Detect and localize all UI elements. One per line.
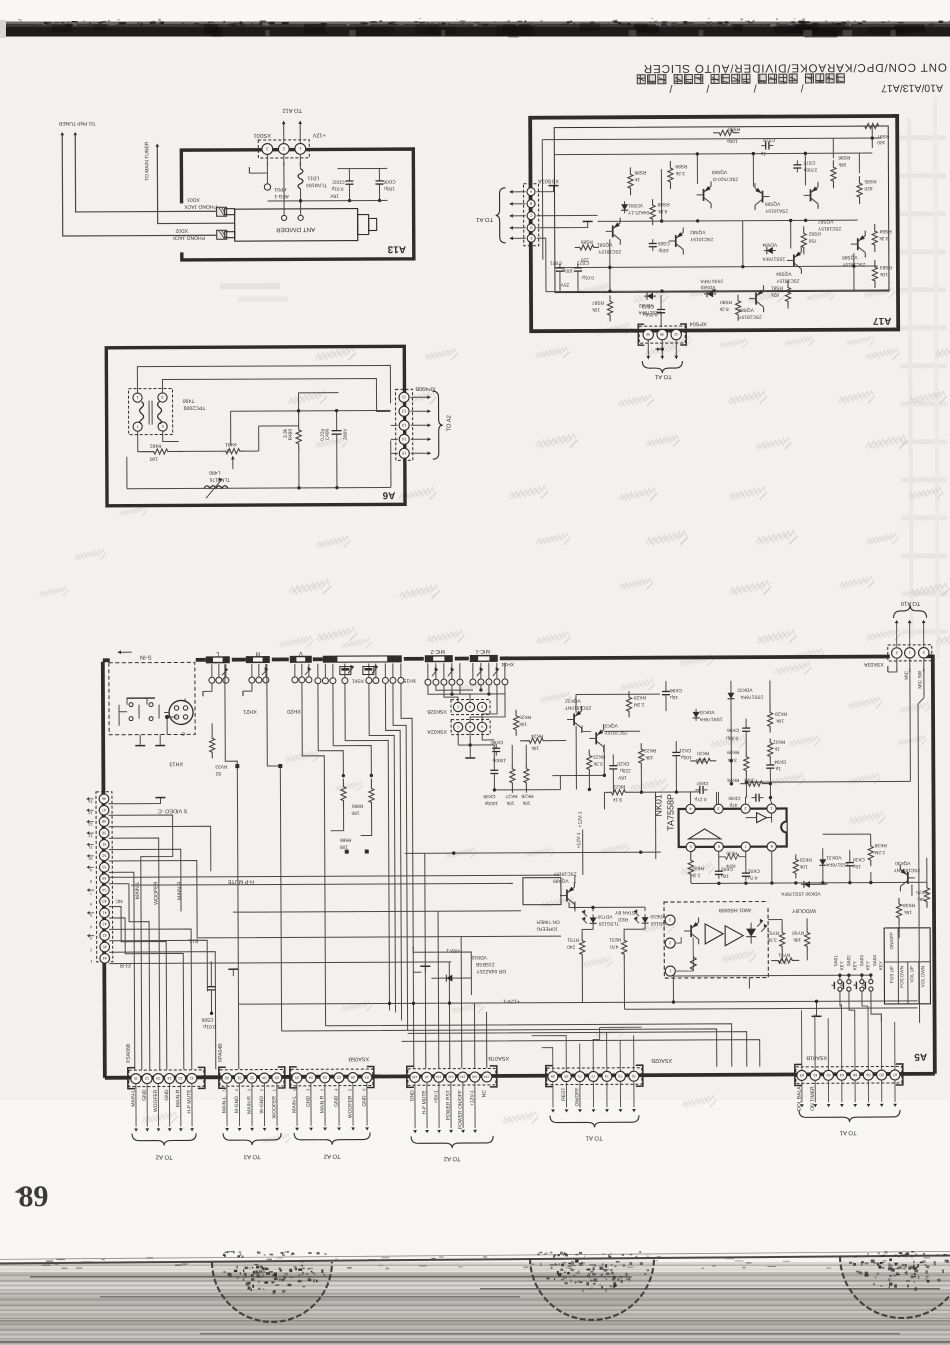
svg-text:A5: A5 bbox=[914, 1051, 927, 1062]
svg-text:2SC1815Y: 2SC1815Y bbox=[552, 871, 576, 877]
svg-text:1SS176FA: 1SS176FA bbox=[700, 278, 724, 284]
wires VQA99 bbox=[541, 890, 562, 892]
svg-text:TO A3: TO A3 bbox=[243, 1153, 261, 1160]
left connector pin 46 bbox=[99, 794, 109, 804]
svg-text:A13: A13 bbox=[387, 243, 406, 254]
XSK02B pins C A B bbox=[453, 702, 462, 711]
stray dark specks on top band edge bbox=[18, 19, 21, 20]
resistor RE51 470 bbox=[622, 933, 627, 961]
svg-text:TO A1: TO A1 bbox=[585, 1134, 603, 1141]
svg-text:VQS85: VQS85 bbox=[764, 201, 780, 207]
svg-text:RS80: RS80 bbox=[720, 299, 732, 305]
LED wiring bbox=[592, 926, 594, 929]
svg-text:POS UP: POS UP bbox=[889, 966, 894, 983]
svg-text:16V: 16V bbox=[617, 774, 626, 780]
svg-text:R: R bbox=[255, 650, 260, 657]
svg-text:R492: R492 bbox=[150, 443, 162, 449]
svg-text:L490: L490 bbox=[209, 469, 220, 475]
svg-text:XH21: XH21 bbox=[243, 708, 257, 714]
svg-text:8: 8 bbox=[90, 879, 92, 883]
XSA01B pin 66 bbox=[850, 1070, 860, 1080]
svg-text:100µ: 100µ bbox=[562, 268, 573, 274]
capacitor CS73 0.056u bbox=[660, 305, 662, 309]
arrows above XSK03A to A10 bbox=[896, 623, 898, 647]
svg-text:13: 13 bbox=[401, 423, 406, 428]
svg-text:VQS84: VQS84 bbox=[738, 307, 754, 313]
svg-text:C: C bbox=[456, 705, 459, 709]
resistor RS89 3.3k bbox=[668, 161, 673, 189]
svg-text:41: 41 bbox=[102, 910, 106, 914]
optocoupler pins 3 2 1 bbox=[665, 915, 675, 925]
bottom band stripes bbox=[0, 1262, 950, 1265]
svg-text:25V: 25V bbox=[560, 282, 569, 288]
svg-text:43: 43 bbox=[102, 922, 106, 926]
svg-text:RE51: RE51 bbox=[609, 936, 621, 942]
resistor RS81 82k bbox=[785, 280, 790, 308]
svg-text:C566: C566 bbox=[201, 1016, 213, 1022]
svg-text:4.7µ: 4.7µ bbox=[748, 875, 758, 881]
optocoupler internal amp triangles bbox=[705, 924, 723, 944]
svg-text:POS DWN: POS DWN bbox=[899, 966, 904, 988]
svg-text:RS81: RS81 bbox=[771, 284, 783, 290]
connector XP490B pins 11-15 bbox=[399, 392, 409, 402]
svg-text:TLN3176: TLN3176 bbox=[209, 476, 230, 482]
svg-text:KEY: KEY bbox=[839, 961, 844, 970]
inductor LD11 TLN3183 bbox=[298, 169, 303, 189]
connector XPS04 pin 46 bbox=[643, 329, 653, 339]
svg-text:CK87: CK87 bbox=[696, 780, 708, 786]
svg-text:7: 7 bbox=[90, 891, 92, 895]
transistor VQK32 2SC1815NY bbox=[573, 714, 575, 726]
IC NK01 bottom pins 5 6 7 8 bbox=[686, 842, 695, 851]
svg-text:TO A2: TO A2 bbox=[446, 415, 453, 431]
transistor VQS84b 2SC1815Y (lower) bbox=[755, 293, 757, 305]
S-IN switch contacts bbox=[129, 703, 133, 707]
optocoupler photodiode bbox=[746, 929, 756, 937]
resistor RK01 1k bbox=[768, 739, 773, 761]
svg-text:CK92: CK92 bbox=[720, 866, 732, 872]
svg-text:CS72: CS72 bbox=[577, 259, 589, 265]
resistor RY52 3.3k bbox=[780, 926, 785, 952]
svg-text:0.01µ: 0.01µ bbox=[203, 1023, 216, 1029]
svg-text:2SA1015Y: 2SA1015Y bbox=[764, 207, 788, 213]
svg-text:12: 12 bbox=[145, 1076, 149, 1080]
svg-text:32: 32 bbox=[250, 1076, 254, 1080]
svg-text:TO A1: TO A1 bbox=[654, 373, 672, 380]
left connector pin 47 bbox=[99, 805, 109, 815]
resistor RT51 240 bbox=[580, 933, 585, 961]
brace TO A10 above XSK03A bbox=[894, 605, 927, 618]
resistor RS83 10k bbox=[872, 260, 877, 288]
svg-text:XPS04: XPS04 bbox=[690, 320, 707, 326]
rounded bus bends above XSA02B bbox=[326, 1024, 732, 1069]
svg-text:20: 20 bbox=[351, 1075, 355, 1079]
arrows right of XP490B bbox=[411, 396, 431, 398]
resistor RS86 1k bbox=[628, 167, 633, 195]
svg-text:VQS87: VQS87 bbox=[818, 218, 834, 224]
svg-text:A6: A6 bbox=[382, 489, 395, 500]
A13 ghost marks below block bbox=[220, 283, 280, 289]
svg-text:RS84: RS84 bbox=[879, 228, 891, 234]
transistor VQS84 2SC1815Y bbox=[793, 254, 795, 266]
resistor RK33 10k bbox=[793, 854, 798, 878]
svg-text:CD02: CD02 bbox=[332, 179, 345, 185]
bottom band long streaks bbox=[30, 1276, 630, 1278]
capacitor C566 0.01u bbox=[210, 961, 212, 982]
svg-text:67: 67 bbox=[893, 1072, 897, 1076]
capacitor CK94 1u bbox=[769, 761, 771, 765]
diode VD582 1SS176FA bbox=[644, 295, 656, 297]
svg-text:46: 46 bbox=[102, 796, 106, 800]
jack L pins and switch bbox=[209, 677, 215, 683]
block A5 top border segments bbox=[103, 658, 110, 662]
capacitor CD02 0.01u bbox=[348, 177, 350, 181]
diode VD810 Z15BSB bbox=[413, 971, 421, 973]
svg-text:CS77: CS77 bbox=[803, 159, 815, 165]
svg-text:XD03: XD03 bbox=[187, 196, 200, 202]
IC NK01 top pins 4 3 2 1 bbox=[686, 804, 695, 813]
svg-text:100µ: 100µ bbox=[384, 185, 395, 191]
svg-text:CK96: CK96 bbox=[727, 727, 739, 733]
svg-text:VQK32: VQK32 bbox=[565, 697, 581, 703]
svg-text:TLN3183: TLN3183 bbox=[306, 182, 327, 188]
svg-text:10k: 10k bbox=[776, 717, 784, 723]
svg-text:R665: R665 bbox=[351, 803, 363, 809]
jack V pins and switch bbox=[292, 677, 298, 683]
svg-text:1k: 1k bbox=[774, 746, 780, 752]
svg-text:2SC1815NY: 2SC1815NY bbox=[564, 704, 591, 710]
connector XPS04 dashed outline with brackets bbox=[639, 326, 685, 343]
svg-text:AFG-1: AFG-1 bbox=[274, 193, 289, 199]
svg-text:ON TIMER: ON TIMER bbox=[536, 919, 560, 925]
wires above XSA02B pins bbox=[542, 1048, 553, 1072]
scan: dark band at top of page bbox=[0, 24, 950, 37]
svg-text:RS95: RS95 bbox=[864, 178, 876, 184]
switch SA02 KEY bbox=[847, 980, 851, 984]
svg-text:1µ: 1µ bbox=[775, 766, 781, 772]
bottom band top thin dark rule bbox=[0, 1255, 950, 1265]
XSA05B pin 23 bbox=[320, 1073, 330, 1083]
resistor RK27 10k bbox=[510, 762, 515, 790]
XSA01B pin 62 bbox=[823, 1070, 833, 1080]
svg-text:RV33: RV33 bbox=[215, 763, 227, 769]
XSA01B pin 60 bbox=[877, 1070, 887, 1080]
svg-text:S VIDEO -C: S VIDEO -C bbox=[158, 807, 188, 813]
connector XSK02A dashed outline bbox=[451, 719, 490, 734]
svg-text:RK70: RK70 bbox=[916, 890, 928, 895]
svg-text:2.2M: 2.2M bbox=[874, 849, 885, 855]
key function table bbox=[884, 928, 930, 1004]
svg-text:89: 89 bbox=[18, 1180, 48, 1213]
mark left of page number bbox=[14, 1187, 21, 1193]
svg-text:XSK02A: XSK02A bbox=[427, 728, 447, 734]
left connector pin 42 bbox=[100, 931, 110, 941]
svg-text:2.2M: 2.2M bbox=[634, 701, 645, 707]
XSA06B arrows down bbox=[135, 1084, 137, 1126]
svg-text:220µ: 220µ bbox=[620, 767, 631, 773]
transistor VQK30 2SC1815NY bbox=[907, 872, 909, 884]
svg-text:ANT DIVIDER: ANT DIVIDER bbox=[276, 226, 316, 233]
svg-text:31: 31 bbox=[237, 1076, 241, 1080]
capacitor CK30 10u bbox=[849, 858, 851, 862]
svg-text:2SC1815Y: 2SC1815Y bbox=[841, 261, 865, 267]
svg-text:RK20: RK20 bbox=[697, 750, 709, 756]
svg-text:52: 52 bbox=[102, 853, 106, 857]
transformer T490 pin 5 bbox=[158, 422, 167, 431]
brace TO A3 under XPA04B bbox=[223, 1133, 281, 1145]
svg-text:CK94: CK94 bbox=[774, 758, 786, 764]
arrows from XSS03A to A1 bbox=[510, 191, 526, 193]
connector XSS03A pins A-E bbox=[527, 188, 535, 196]
resistor RY51 3.3k (lower) bbox=[771, 958, 799, 963]
svg-text:+12V-1: +12V-1 bbox=[503, 998, 520, 1004]
block A13 border (ANT DIVIDER board) bbox=[181, 149, 414, 260]
ground stub right of keys bbox=[815, 1001, 817, 1016]
svg-text:8.2k: 8.2k bbox=[719, 306, 729, 312]
svg-text:(GREEN): (GREEN) bbox=[537, 926, 558, 932]
svg-text:LD11: LD11 bbox=[307, 175, 319, 181]
wires right-mid column bbox=[730, 714, 732, 784]
svg-text:SA03: SA03 bbox=[859, 955, 864, 967]
svg-text:04AZ5.1Y: 04AZ5.1Y bbox=[627, 209, 649, 215]
wire H-P MUTE bus bbox=[131, 883, 513, 885]
resistor RS85 220 bbox=[575, 245, 599, 250]
svg-text:RK21: RK21 bbox=[613, 783, 625, 789]
svg-text:TO A2: TO A2 bbox=[443, 1155, 461, 1162]
svg-text:VOL UP: VOL UP bbox=[909, 966, 914, 983]
connector XSD01 pin 1 bbox=[295, 143, 306, 154]
connector XPS04 pin 48 bbox=[657, 329, 667, 339]
brace TO A2 under XSA06B bbox=[132, 1133, 196, 1145]
XSA02B pin 73 bbox=[615, 1071, 625, 1081]
XSA07B pin 133 bbox=[434, 1072, 444, 1082]
svg-text:77: 77 bbox=[591, 1074, 595, 1078]
svg-text:56k: 56k bbox=[838, 161, 846, 167]
left connector pin 50 bbox=[99, 828, 109, 838]
resistor RS96 56k bbox=[831, 160, 836, 188]
wire XSS03A pin A into board bbox=[536, 186, 553, 192]
node bus under LD11 bbox=[268, 199, 388, 202]
svg-text:XSA07B: XSA07B bbox=[488, 1055, 509, 1061]
connector XSK03A on top edge bbox=[888, 645, 932, 661]
svg-text:3.3k: 3.3k bbox=[593, 760, 603, 766]
svg-text:XD02: XD02 bbox=[175, 227, 188, 233]
svg-text:RK33: RK33 bbox=[799, 856, 811, 862]
svg-text:RK98: RK98 bbox=[727, 777, 739, 783]
svg-text:RK01: RK01 bbox=[773, 738, 785, 744]
svg-text:51: 51 bbox=[102, 842, 106, 846]
resistor R492 100 bbox=[138, 449, 184, 454]
ANT DIVIDER output connector bbox=[358, 215, 369, 235]
svg-text:200V: 200V bbox=[343, 428, 349, 440]
svg-text:MIC-1: MIC-1 bbox=[475, 648, 490, 654]
svg-text:PHONO JACK: PHONO JACK bbox=[184, 203, 217, 209]
XSA06B pin 15 bbox=[131, 1074, 141, 1084]
svg-text:1µ: 1µ bbox=[760, 151, 766, 157]
XSA07B pin 135 bbox=[410, 1072, 420, 1082]
svg-text:470: 470 bbox=[610, 943, 618, 949]
svg-text:820: 820 bbox=[864, 185, 872, 191]
resistor RS88 6.8k bbox=[650, 199, 655, 225]
XPA04B pin 30 bbox=[222, 1073, 232, 1083]
svg-text:+12V-1: +12V-1 bbox=[576, 832, 582, 848]
svg-text:1SS176FA: 1SS176FA bbox=[826, 861, 850, 867]
svg-text:CK98: CK98 bbox=[491, 739, 503, 745]
svg-text:2SC1015Y: 2SC1015Y bbox=[689, 236, 713, 242]
svg-text:XH13: XH13 bbox=[169, 760, 183, 766]
svg-text:RS88: RS88 bbox=[657, 201, 669, 207]
arrows below XPS04 to A1 bbox=[647, 340, 649, 359]
resistor RK98 330k bbox=[740, 781, 770, 786]
capacitor CK90 47p bbox=[751, 797, 755, 799]
op-amp triangle near pins 5-6 bbox=[689, 829, 721, 839]
bottom connector XSA05B bbox=[291, 1069, 373, 1086]
svg-text:XS61: XS61 bbox=[352, 678, 364, 684]
svg-text:100: 100 bbox=[877, 139, 885, 145]
op-amp triangle near pin 1 bbox=[757, 813, 767, 823]
XSA06B pin 13 bbox=[176, 1073, 186, 1083]
svg-text:TO A10: TO A10 bbox=[901, 600, 921, 607]
svg-text:49: 49 bbox=[102, 876, 106, 880]
svg-text:1k: 1k bbox=[634, 176, 640, 182]
XPA04B pin 32 bbox=[247, 1073, 257, 1083]
diode VDK32 1SS176FA (right) bbox=[730, 690, 732, 702]
wire XSS03A pin E bus down bbox=[537, 238, 546, 292]
left connector pin 49 bbox=[100, 874, 110, 884]
XSA02B pin 25 bbox=[561, 1072, 571, 1082]
transistor VQS83 2SC7520-O bbox=[703, 189, 705, 201]
svg-text:VDK33: VDK33 bbox=[699, 709, 715, 715]
svg-text:3: 3 bbox=[90, 936, 92, 940]
resistor RK25 10k bbox=[513, 710, 518, 736]
wire XSD01 pin2 to divider bbox=[283, 155, 285, 215]
wire phono jack XD02 to PNP tuner bbox=[62, 133, 216, 236]
svg-text:RS86: RS86 bbox=[634, 169, 646, 175]
svg-text:OR 04AZ15Y: OR 04AZ15Y bbox=[476, 968, 506, 974]
svg-text:VD583: VD583 bbox=[700, 284, 715, 290]
svg-text:30: 30 bbox=[225, 1076, 229, 1080]
IC NK01 TA7558P body bbox=[679, 808, 787, 847]
XSA05B pin 24 bbox=[306, 1073, 316, 1083]
diode VD583 1SS176FA bbox=[704, 293, 716, 295]
switch SA03 KEY bbox=[860, 980, 864, 984]
svg-text:100: 100 bbox=[149, 456, 157, 462]
svg-text:L: L bbox=[215, 650, 219, 657]
resistor RK28 2.2M bbox=[626, 691, 631, 717]
XSA01B pin 67 bbox=[890, 1070, 900, 1080]
svg-text:25: 25 bbox=[564, 1074, 568, 1078]
svg-text:RK39: RK39 bbox=[874, 842, 886, 848]
transistor VQS81 2SC1815Y bbox=[612, 225, 614, 237]
svg-text:SA02: SA02 bbox=[846, 955, 851, 967]
capacitor CS72 0.01u bbox=[577, 263, 579, 267]
svg-text:XSA06B: XSA06B bbox=[126, 1043, 132, 1063]
resistor R665 180 bbox=[341, 779, 346, 809]
svg-text:134: 134 bbox=[484, 1075, 490, 1079]
wire to main tuner bbox=[157, 146, 234, 223]
svg-text:5: 5 bbox=[90, 913, 92, 917]
A6 bottom bus bbox=[127, 487, 391, 488]
left connector pin 41 bbox=[100, 908, 110, 918]
svg-text:66: 66 bbox=[853, 1073, 857, 1077]
A17 internal wire mesh bbox=[554, 153, 872, 155]
svg-text:10k: 10k bbox=[879, 271, 887, 277]
svg-text:XSA01B: XSA01B bbox=[806, 1054, 827, 1060]
svg-text:1SS176FA: 1SS176FA bbox=[762, 255, 786, 261]
brace TO A2 right of XP490B bbox=[432, 391, 442, 459]
svg-text:VQS84: VQS84 bbox=[776, 270, 792, 276]
svg-text:66: 66 bbox=[866, 1073, 870, 1077]
svg-text:0.33µ: 0.33µ bbox=[726, 735, 738, 741]
XSA02B pin 71 bbox=[575, 1071, 585, 1081]
XSA01B pin 61 bbox=[810, 1070, 820, 1080]
svg-text:3.3k: 3.3k bbox=[283, 428, 289, 438]
XS61 pin circles bbox=[315, 678, 321, 684]
svg-text:CS71: CS71 bbox=[550, 260, 562, 266]
ANT DIVIDER box bbox=[235, 209, 358, 242]
bottom connector XSA07B bbox=[408, 1068, 496, 1085]
resistor RK99 3.3k bbox=[744, 751, 749, 777]
capacitor CS77 2700p bbox=[796, 160, 798, 164]
svg-text:VOL DWN: VOL DWN bbox=[920, 966, 925, 987]
bottom connector XSA01B bbox=[796, 1066, 902, 1083]
svg-text:10k: 10k bbox=[522, 800, 530, 806]
svg-text:TO PNP TUNER: TO PNP TUNER bbox=[58, 120, 95, 126]
long bus to MIC switch bbox=[746, 780, 910, 783]
svg-text:2.2k: 2.2k bbox=[691, 872, 701, 878]
svg-text:XPA04B: XPA04B bbox=[218, 1043, 224, 1063]
XSA02B pin 26 bbox=[548, 1072, 558, 1082]
svg-text:10µ: 10µ bbox=[853, 863, 861, 869]
transistor VQS86 2SC1815Y bbox=[857, 238, 859, 250]
svg-text:2SC1815NY: 2SC1815NY bbox=[893, 867, 920, 873]
junction squares on jack wires bbox=[235, 764, 239, 768]
svg-text:2SC1815Y: 2SC1815Y bbox=[604, 729, 628, 735]
wires lower right bbox=[771, 851, 773, 883]
svg-text:RY50: RY50 bbox=[792, 929, 804, 935]
svg-text:C: C bbox=[181, 730, 185, 736]
XS61 switch levers bbox=[348, 667, 354, 674]
svg-text:RK28: RK28 bbox=[634, 694, 646, 700]
XSA06B pin 14 bbox=[164, 1073, 174, 1083]
wires at NK01 pins bbox=[690, 802, 692, 804]
svg-text:RS97: RS97 bbox=[877, 133, 889, 139]
resistor RS97 100 (top right) bbox=[855, 123, 888, 128]
resistor RK70 56k bbox=[924, 882, 929, 908]
transistor VQK31 2SC1815Y bbox=[595, 732, 597, 744]
resistor RS80 8.2k bbox=[735, 295, 740, 321]
wires from keys down to XSA01B bbox=[839, 998, 841, 1006]
S-video connector XH13 body bbox=[169, 700, 193, 724]
XSA07B pin 134 bbox=[482, 1072, 492, 1082]
svg-text:RY51: RY51 bbox=[778, 951, 790, 957]
svg-text:VD584: VD584 bbox=[762, 242, 777, 248]
wire EI-R bus bbox=[109, 962, 451, 964]
svg-text:48: 48 bbox=[102, 819, 106, 823]
ghost print marks on right margin bbox=[899, 135, 945, 140]
svg-text:S-IN: S-IN bbox=[140, 654, 152, 661]
svg-text:XP490B: XP490B bbox=[415, 385, 436, 391]
wires from left connector into board bbox=[109, 815, 174, 1070]
svg-text:15: 15 bbox=[401, 451, 406, 456]
block A17 border (front control board) bbox=[530, 116, 898, 331]
svg-text:1SS176FA: 1SS176FA bbox=[699, 716, 723, 722]
XSA01B arrows down bbox=[801, 1081, 803, 1102]
svg-text:KEY: KEY bbox=[865, 961, 870, 970]
svg-text:220k: 220k bbox=[695, 757, 706, 763]
svg-text:3.3k: 3.3k bbox=[675, 170, 685, 176]
svg-text:CK90: CK90 bbox=[728, 795, 740, 801]
